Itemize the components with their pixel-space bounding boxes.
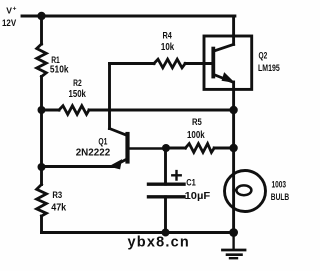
wire top supply rail [22,15,235,18]
resistor R5 [185,144,214,153]
node C1 top / R5 left junction [162,144,170,152]
svg-text:R2: R2 [73,77,82,88]
label R3 47k [51,189,66,213]
wire left vertical (R3 to bottom rail) [40,216,43,233]
label Q1 2N2222 [76,136,111,159]
svg-text:12V: 12V [2,18,17,29]
label Q2 LM195 [258,50,280,74]
capacitor C1 [149,148,185,233]
wire left vertical (R2 tap to emitter node) [40,110,43,167]
svg-text:150k: 150k [69,89,87,100]
svg-text:LM195: LM195 [258,63,280,74]
svg-text:C1: C1 [186,177,196,188]
label V+ supply [2,6,17,30]
label R1 510k [50,54,69,75]
svg-text:ybx8.cn: ybx8.cn [128,235,190,251]
wire R2 to Q2 emitter node [89,109,234,112]
svg-text:510k: 510k [50,64,69,75]
wire Q1 base to C1 node [166,147,185,150]
transistor Q1 2N2222 [110,64,167,169]
resistor R3 [37,185,47,217]
svg-text:47k: 47k [51,202,66,213]
wire left vertical (to R3) [40,167,43,185]
wire R5 node down to bulb [232,148,235,233]
transistor Q2 LM195 (boxed) [204,36,252,110]
wire Q2 collector to top rail [232,16,235,36]
svg-text:Q2: Q2 [259,50,268,61]
label R5 100k [187,116,205,141]
svg-text:Q1: Q1 [98,136,107,147]
wire left vertical (V+ to R1) [40,16,43,44]
label R2 150k [69,77,87,100]
svg-text:2N2222: 2N2222 [76,148,111,159]
wire Q1 emitter horizontal [42,165,114,168]
node R2 tap junction [38,106,46,114]
node C1 bottom junction [162,229,170,237]
svg-text:R3: R3 [52,189,62,200]
node Q1 emitter / R3 junction [38,163,46,171]
wire R2 left lead [42,109,60,112]
svg-text:BULB: BULB [271,192,289,203]
node ground junction [229,228,238,237]
resistor R2 [59,106,89,115]
svg-text:V: V [6,6,12,16]
svg-text:+: + [13,6,17,13]
ground [223,233,246,259]
wire emitter node down to R5 node [232,110,235,148]
wire bottom rail [42,231,234,234]
wire R4 left lead from Q1 collector [110,62,155,65]
node Q2 emitter / R2 junction [229,106,237,114]
node top-left junction [37,12,45,20]
watermark text [128,235,190,251]
resistor R4 [154,59,185,68]
wire left vertical (R1 to R2 tap) [40,77,43,111]
node R5 right junction [229,144,237,152]
resistor R1 [37,44,47,77]
wire R5 right lead [214,147,233,150]
wire R4 to Q2 base [185,62,211,65]
svg-text:R5: R5 [192,116,202,127]
svg-text:100k: 100k [187,130,205,141]
lamp 1003 bulb [225,171,266,212]
svg-text:10µF: 10µF [185,191,211,202]
svg-text:R4: R4 [163,29,173,40]
label R4 10k [161,29,175,53]
svg-text:1003: 1003 [272,179,287,190]
svg-text:10k: 10k [161,42,175,53]
label 1003 BULB [271,179,289,203]
label C1 10uF [185,177,211,203]
